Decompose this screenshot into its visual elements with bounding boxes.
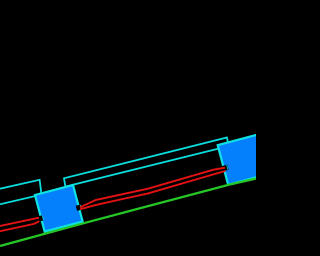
- wire channel (long cyan box between U1 and U2): [64, 138, 228, 187]
- pin U2.1 (left side of U2, notch with inner sliver): [222, 165, 229, 172]
- wire red lower (pin U1.2 to pin U2.1): [80, 171, 225, 209]
- component U1 (left blue pad): [35, 185, 83, 232]
- pin U1.2 (right side of U1, notch with inner sliver): [76, 204, 82, 210]
- wire green (bottom net across canvas): [0, 179, 256, 246]
- component U2 (right blue pad, partly off-canvas): [218, 131, 282, 185]
- wire red upper-left (edge to pin U1.1): [0, 218, 39, 226]
- wire red lower-left (edge to pin U1.1): [0, 221, 39, 231]
- wire channel (left cyan box from edge to U1): [0, 180, 42, 205]
- wire red upper (pin U1.2 to pin U2.1): [80, 168, 225, 208]
- pin U1.1 (left side of U1, notch with inner sliver): [38, 215, 44, 221]
